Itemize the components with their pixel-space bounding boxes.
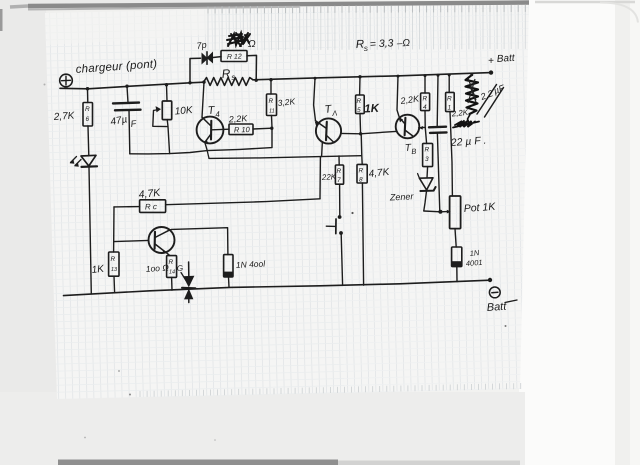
wire bbox=[448, 75, 450, 92]
diode D1 (bowtie) bbox=[202, 53, 209, 65]
wire T2 top bbox=[397, 76, 399, 117]
svg-text:5: 5 bbox=[357, 107, 361, 114]
svg-text:R 12: R 12 bbox=[227, 53, 242, 61]
resistor R7 (22K) box bbox=[335, 165, 343, 184]
potentiometer Pot 1K body bbox=[450, 196, 461, 229]
wire top rail right bbox=[253, 73, 491, 80]
svg-text:R: R bbox=[85, 106, 90, 113]
wire wiper loop bbox=[153, 111, 168, 127]
capacitor C1 47uF bbox=[113, 101, 139, 104]
wire bbox=[127, 86, 128, 102]
svg-text:s: s bbox=[231, 73, 236, 82]
resistor R3 box bbox=[423, 143, 433, 166]
wire bbox=[424, 76, 426, 93]
wire bbox=[171, 277, 173, 290]
wire R1 to pot bbox=[450, 112, 452, 196]
wire bbox=[425, 111, 427, 144]
svg-text:7p: 7p bbox=[196, 40, 207, 51]
wire bbox=[87, 126, 90, 156]
wire bbox=[253, 127, 272, 130]
svg-text:3,2K: 3,2K bbox=[277, 96, 296, 108]
svg-text:R: R bbox=[169, 259, 174, 266]
wire bbox=[87, 89, 89, 103]
wire left vertical bbox=[113, 207, 115, 252]
wire bbox=[228, 277, 231, 287]
wire T2 right bbox=[419, 126, 425, 128]
wire collector T5 bbox=[168, 228, 228, 255]
wire base T5 bbox=[114, 240, 149, 241]
bottom margin bbox=[0, 392, 525, 465]
resistor R5 (1K) box bbox=[356, 95, 365, 114]
pot wiper arrow bbox=[154, 107, 160, 111]
transistor T2 (TB) bbox=[396, 115, 420, 139]
top-left grid wash bbox=[46, 6, 208, 46]
svg-text:Λ: Λ bbox=[331, 109, 338, 119]
svg-text:2,7K: 2,7K bbox=[52, 110, 76, 123]
svg-text:–Ω: –Ω bbox=[396, 38, 411, 50]
wire R8 top bbox=[361, 134, 362, 164]
svg-text:B: B bbox=[411, 147, 416, 156]
wire gate bbox=[181, 273, 186, 281]
svg-text:s: s bbox=[364, 44, 368, 53]
wire bbox=[456, 267, 458, 282]
svg-text:Batt: Batt bbox=[496, 53, 516, 65]
wire bbox=[359, 77, 361, 95]
svg-text:22K: 22K bbox=[321, 172, 337, 182]
wire line2 bbox=[209, 156, 361, 159]
svg-text:6: 6 bbox=[86, 116, 90, 123]
svg-text:= 3,3: = 3,3 bbox=[370, 37, 394, 50]
svg-text:Ω: Ω bbox=[248, 39, 256, 50]
transistor TA bbox=[316, 118, 341, 143]
svg-text:R: R bbox=[447, 96, 452, 103]
potentiometer 10K body bbox=[162, 101, 171, 120]
wire branch up-left bbox=[190, 58, 201, 83]
terminal plus (chargeur) bbox=[60, 74, 73, 87]
bottom scan edge bar bbox=[58, 460, 338, 465]
wire bbox=[188, 262, 190, 276]
wire top rail left bbox=[60, 82, 204, 89]
svg-text:4,7K: 4,7K bbox=[138, 187, 162, 201]
right white sheet bbox=[519, 0, 640, 465]
wire left column down bbox=[89, 167, 91, 294]
diode D5 1N4001 box bbox=[452, 247, 462, 267]
wire bbox=[271, 116, 274, 128]
wire RC line bbox=[166, 199, 320, 205]
svg-text:R: R bbox=[359, 168, 364, 175]
svg-text:1N 4ool: 1N 4ool bbox=[236, 258, 267, 270]
wire collector T4 bbox=[202, 82, 204, 117]
svg-text:2,2K: 2,2K bbox=[227, 113, 248, 124]
svg-text:R: R bbox=[111, 256, 116, 263]
wire bbox=[213, 56, 221, 59]
resistor R11 (3,2K) box bbox=[267, 94, 277, 116]
wire bbox=[270, 80, 272, 94]
svg-text:10K: 10K bbox=[174, 105, 194, 118]
svg-text:14: 14 bbox=[169, 270, 175, 276]
svg-text:4,7K: 4,7K bbox=[368, 167, 391, 180]
svg-text:R: R bbox=[357, 98, 362, 105]
triac Th1 bbox=[183, 276, 194, 288]
wire bbox=[455, 229, 456, 247]
wire TA collector to T2 bbox=[341, 131, 396, 133]
resistor R8 (4,7K) box bbox=[357, 164, 367, 183]
node +Batt end dot bbox=[489, 70, 493, 74]
wire to J1 bbox=[207, 129, 272, 151]
resistor R4 (2,2K) box bbox=[421, 93, 430, 111]
svg-text:13: 13 bbox=[111, 267, 118, 273]
svg-text:G: G bbox=[177, 264, 184, 273]
transistor T5 bbox=[149, 227, 175, 253]
wire C2 top bbox=[436, 75, 439, 126]
resistor R10 (2,2K) box bbox=[229, 124, 253, 135]
capacitor C2 bbox=[429, 125, 446, 128]
svg-text:1K: 1K bbox=[364, 103, 380, 116]
strikeout cloud bbox=[453, 121, 479, 128]
resistor R12 box bbox=[221, 51, 247, 62]
svg-text:R: R bbox=[221, 66, 231, 81]
switch S1 bbox=[338, 215, 342, 219]
svg-text:11: 11 bbox=[269, 109, 275, 115]
svg-text:8: 8 bbox=[359, 177, 363, 184]
svg-text:R: R bbox=[337, 168, 342, 175]
wire R8 down bbox=[362, 183, 363, 285]
wire bbox=[166, 253, 170, 256]
wire TA bottom bbox=[321, 143, 324, 156]
paper specks bbox=[351, 212, 353, 214]
svg-text:R: R bbox=[423, 96, 428, 103]
wire bottom rail bbox=[64, 280, 491, 295]
svg-text:3: 3 bbox=[425, 156, 429, 163]
zener diode Dz bbox=[419, 178, 433, 190]
resistor Rs zigzag bbox=[204, 78, 254, 86]
transistor T4 bbox=[197, 117, 224, 144]
resistor R1 box bbox=[446, 92, 455, 111]
wire TA top bbox=[314, 78, 316, 121]
left edge artifact bbox=[0, 9, 3, 31]
svg-text:+: + bbox=[488, 56, 494, 67]
wire bbox=[424, 192, 427, 211]
top right corner artifact bbox=[535, 1, 635, 4]
diode D4 1N4001 box bbox=[224, 255, 233, 277]
resistor R6 (2,7K) box bbox=[83, 103, 93, 127]
svg-text:R c: R c bbox=[145, 202, 157, 211]
svg-text:Zener: Zener bbox=[389, 191, 415, 202]
scribble crossed-out value above R12 bbox=[227, 33, 250, 46]
wire bbox=[339, 184, 341, 215]
LED arrows bbox=[71, 157, 82, 166]
graph paper bbox=[45, 3, 529, 399]
wire bbox=[166, 85, 169, 101]
svg-text:Pot 1K: Pot 1K bbox=[463, 201, 496, 215]
scribble resistor top right bbox=[466, 75, 479, 114]
svg-text:4: 4 bbox=[423, 104, 427, 111]
svg-text:R: R bbox=[269, 98, 274, 105]
resistor R13 (1K) box bbox=[109, 252, 119, 276]
resistor R14 (100ohm) box bbox=[167, 256, 177, 278]
svg-text:1oo Ω: 1oo Ω bbox=[145, 262, 169, 274]
svg-text:R: R bbox=[425, 147, 430, 154]
wire wiper node bbox=[424, 210, 441, 213]
svg-text:2,2K: 2,2K bbox=[450, 108, 469, 119]
wire branch down-right bbox=[247, 55, 257, 80]
wire cap-pot to J1 bbox=[130, 151, 207, 154]
node junction dots on rail bbox=[188, 81, 191, 84]
LED D2 bbox=[81, 155, 96, 166]
resistor RC (4,7K) box bbox=[140, 200, 166, 213]
wire R7 top bbox=[338, 156, 340, 165]
wire bbox=[114, 206, 140, 208]
svg-text:7: 7 bbox=[337, 177, 341, 184]
wire base T4 bbox=[212, 128, 229, 131]
slashes over 2,2uF bbox=[477, 85, 504, 118]
wire bbox=[113, 276, 116, 293]
terminal minus bbox=[489, 287, 500, 298]
wire C2 bottom bbox=[437, 134, 439, 212]
wire bbox=[426, 167, 429, 178]
wire bbox=[207, 151, 209, 159]
wire down to RC line bbox=[319, 157, 321, 199]
wire bbox=[167, 120, 169, 154]
top scan edge bar bbox=[28, 3, 529, 7]
svg-text:4001: 4001 bbox=[466, 258, 483, 268]
svg-text:22 µ F .: 22 µ F . bbox=[449, 135, 486, 150]
node minus end dot bbox=[488, 278, 492, 282]
wire bbox=[128, 111, 131, 154]
wire bbox=[359, 114, 362, 134]
wire emitter hook bbox=[205, 142, 207, 150]
wire bbox=[188, 288, 190, 303]
svg-text:1N: 1N bbox=[469, 248, 480, 258]
wire bbox=[341, 235, 342, 286]
svg-text:R 10: R 10 bbox=[234, 125, 251, 135]
